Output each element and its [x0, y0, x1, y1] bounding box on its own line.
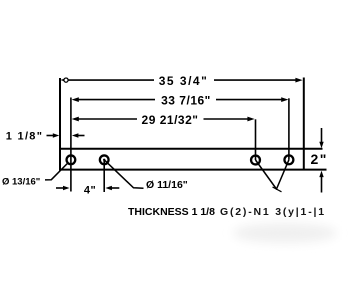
svg-text:G(2)-N1 3(y|1-|1: G(2)-N1 3(y|1-|1 [220, 206, 326, 218]
svg-text:1 1/8": 1 1/8" [6, 131, 43, 143]
svg-text:THICKNESS 1 1/8: THICKNESS 1 1/8 [128, 206, 215, 218]
svg-text:35 3/4": 35 3/4" [159, 74, 209, 88]
svg-text:4": 4" [84, 184, 96, 196]
svg-text:2": 2" [311, 151, 328, 167]
svg-text:Ø 13/16": Ø 13/16" [2, 176, 40, 187]
svg-text:Ø 11/16": Ø 11/16" [146, 179, 188, 191]
svg-text:33 7/16": 33 7/16" [161, 94, 211, 108]
svg-text:29 21/32": 29 21/32" [142, 113, 199, 127]
